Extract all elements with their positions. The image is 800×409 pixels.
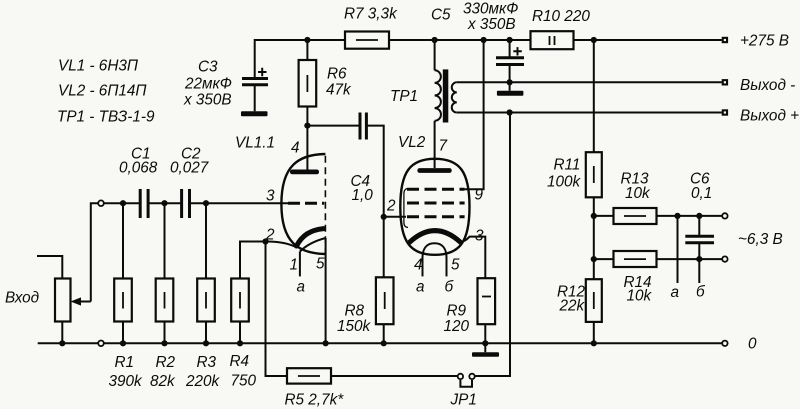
label R2 [150,354,176,390]
resistor R2 [156,279,174,322]
svg-text:3: 3 [266,188,275,205]
svg-text:+275 В: +275 В [740,33,789,50]
svg-text:4: 4 [414,257,423,274]
capacitor C5 plates [496,58,524,65]
tube VL2 anode plate [417,168,451,173]
wire R9 bottom to ground [484,324,486,352]
svg-text:100k: 100k [547,174,582,191]
wire VL2 pin 5 heater leg [446,258,448,276]
label R9 [444,303,470,336]
svg-text:R7 3,3k: R7 3,3k [344,6,398,23]
label C5 [431,1,518,34]
resistor R3 [197,279,215,322]
label R6 [326,66,352,99]
wire R8 vertical [383,217,385,343]
terminal heater a [722,213,727,218]
wire output minus rail [457,81,722,83]
wire TP1 primary to VL2 anode [434,121,436,168]
tube VL1.1 heater arc [300,238,326,252]
tube VL1.1 grid dashes [288,202,324,205]
svg-text:3: 3 [475,228,484,245]
svg-text:R9: R9 [447,303,467,320]
terminal +275V [722,37,728,43]
svg-text:150k: 150k [337,318,372,335]
svg-text:10k: 10k [627,288,653,305]
transformer TP1 core [443,69,449,122]
pin labels VL1 [265,140,325,296]
label C3 [183,59,232,109]
white gap C1 [141,196,147,211]
svg-text:4: 4 [291,140,300,157]
capacitor C6 plates [685,236,714,243]
svg-text:5: 5 [316,256,325,273]
label R1 [109,354,144,390]
svg-text:10k: 10k [625,185,651,202]
svg-text:х 350В: х 350В [183,92,232,109]
svg-text:VL1 - 6Н3П: VL1 - 6Н3П [58,58,139,75]
label R13 [621,171,652,203]
svg-text:9: 9 [475,187,484,204]
terminal output plus [722,109,728,115]
wire top supply rail [255,40,722,79]
svg-text:0: 0 [748,336,757,353]
svg-text:2: 2 [386,198,396,215]
svg-text:0,068: 0,068 [119,160,158,177]
wire R6 bottom to C4 branch [307,125,358,127]
svg-text:С5: С5 [431,7,451,24]
junction dot output plus riser [507,109,513,115]
R9 ground bar [472,352,499,357]
svg-text:R11: R11 [554,157,581,174]
tube VL1.1 divider dashed [324,156,326,254]
wire bottom zero rail [38,342,722,344]
resistor R6 [299,60,317,107]
svg-text:2: 2 [265,227,275,244]
svg-text:R3: R3 [197,354,217,371]
wire VL2 pin 4 heater leg [422,258,424,276]
white gap C4 [361,118,365,133]
svg-text:~6,3 В: ~6,3 В [738,231,783,248]
label R12 [557,284,586,315]
svg-text:VL2 - 6П14П: VL2 - 6П14П [58,83,147,100]
label C2 [170,146,209,177]
label R3 [185,354,221,390]
junction dots top rail [304,37,597,43]
svg-text:R8: R8 [345,303,365,320]
wire heater tail a [677,216,679,283]
legend tube list [57,58,155,126]
svg-text:R5 2,7k*: R5 2,7k* [285,392,345,409]
tube VL1.1 cathode lead [266,241,298,247]
svg-text:R2: R2 [156,354,176,371]
wire R13 heater row a [594,215,722,217]
label C1 [119,146,158,177]
capacitor C4 [360,113,366,140]
svg-text:0,027: 0,027 [170,160,209,177]
svg-text:7: 7 [439,138,448,155]
wire TP1 primary riser [434,40,436,70]
svg-text:47k: 47k [326,82,352,99]
tube VL2 outline [400,159,469,255]
C3 plus sign [258,68,267,76]
resistor R5 [287,368,331,383]
tube VL2 grid bracket [404,189,408,228]
svg-text:R1: R1 [115,354,135,371]
wire R6 anode chain [306,40,308,170]
wire grid rail with wiper riser [91,203,288,301]
wire VL1 cathode to R5 run [266,242,458,377]
wire heater tail b with C6 [698,216,700,283]
resistor R11 [586,152,602,197]
terminal zero [722,341,727,346]
wire C5 upper lead [509,40,511,58]
junction dots heater row a [591,213,703,219]
connector circle input ground [98,341,104,347]
svg-text:а: а [671,284,680,301]
svg-text:а: а [297,279,306,296]
resistor R10 [531,31,574,49]
svg-text:0,1: 0,1 [691,185,712,202]
tube VL1.1 outline half [281,154,325,254]
svg-text:б: б [445,279,455,296]
wire VL2 cathode pin 3 to R9 [461,237,486,279]
capacitor C1 [140,189,148,218]
svg-text:1,0: 1,0 [352,187,374,204]
svg-text:ТР1 - ТВЗ-1-9: ТР1 - ТВЗ-1-9 [57,109,155,126]
wire R1 vertical [122,203,124,343]
svg-text:Выход +: Выход + [740,108,799,125]
label R8 [337,303,372,336]
svg-text:х 350В: х 350В [467,16,516,33]
capacitor C2 [182,189,190,218]
wire R3 vertical [205,203,207,343]
svg-text:R10 220: R10 220 [532,8,590,25]
junction dot C5 output minus [507,79,513,85]
svg-text:ТР1: ТР1 [390,88,418,105]
wire VL2 pin 9 screen to top rail [465,40,484,189]
C3 ground bar [241,111,268,116]
transformer TP1 secondary winding [452,82,457,112]
tube VL1.1 anode plate [290,170,319,175]
tube VL2 cathode arc [410,231,461,243]
svg-text:Выход -: Выход - [740,77,795,94]
svg-text:220k: 220k [185,373,221,390]
resistor R4 [231,279,249,322]
svg-text:JP1: JP1 [450,392,477,409]
white gap C6 [695,237,705,242]
wire input lead [37,256,62,279]
pin labels VL2 [386,138,484,296]
svg-text:750: 750 [231,373,257,390]
junction dots grid rail [120,200,209,206]
resistor R1 [114,279,132,322]
svg-text:330мкФ: 330мкФ [463,1,518,18]
wire VL1 pin 5 heater lead [325,238,327,343]
white gap C2 [183,196,189,211]
jumper JP1 [458,374,475,387]
wire C4 to VL2 grid [366,126,406,217]
label C4 [351,173,374,204]
tube VL2 grid row g2 [407,188,465,191]
tube VL1.1 cathode arc [297,229,324,246]
wire JP1 to output plus riser [475,113,510,377]
svg-text:R4: R4 [230,353,250,370]
svg-text:22мкФ: 22мкФ [184,76,232,93]
label R14 [624,274,653,305]
potentiometer wiper arrow [71,297,91,305]
label R11 [547,157,582,191]
junction dots heater row b [591,256,703,262]
terminal heater b [722,256,727,261]
svg-text:С3: С3 [198,59,218,76]
svg-text:VL1.1: VL1.1 [235,135,275,152]
svg-text:5: 5 [451,257,460,274]
svg-text:VL2: VL2 [398,134,426,151]
resistor R12 [586,279,602,322]
transformer TP1 primary winding [435,70,441,121]
wire output plus rail [457,112,722,114]
svg-text:120: 120 [444,318,470,335]
wire C5 lower lead [509,65,511,91]
terminal output minus [722,79,728,85]
resistor R9 [478,278,496,324]
junction dots bottom rail [59,340,597,346]
wire potentiometer bottom [61,322,63,344]
wire R2 vertical [164,203,166,343]
label C6 [690,171,712,203]
svg-text:б: б [696,284,706,301]
junction dot VL2 grid node [381,214,387,220]
svg-text:Вход: Вход [5,290,39,307]
C5 plus sign [513,47,522,55]
C5 ground bar [497,91,524,96]
svg-text:а: а [416,279,425,296]
tube VL2 heater arc [423,243,447,258]
svg-text:390k: 390k [109,373,144,390]
label R4 [230,353,257,390]
tube VL2 grid row g1 [407,215,465,218]
wire R11 R12 divider chain [593,40,595,343]
svg-text:1: 1 [290,257,299,274]
resistor R7 [345,32,389,49]
tube VL2 grid row g3 [407,202,465,205]
junction dot VL1 cathode node [262,238,268,244]
connector circle input signal [98,200,104,206]
resistor R13 [614,208,657,224]
junction dot R6 bottom node [304,123,310,129]
capacitor C3 plates [242,79,268,85]
wire VL1 pin 1 heater lead [299,252,301,277]
wire R4 vertical and cathode link [240,242,266,344]
resistor R8 [376,277,394,324]
potentiometer box [55,279,71,322]
wire R14 heater row b [594,258,722,260]
wire C3 lower lead [254,85,256,112]
svg-text:82k: 82k [150,373,176,390]
svg-text:22k: 22k [559,298,586,315]
resistor R14 [614,251,657,267]
svg-text:R6: R6 [327,66,347,83]
